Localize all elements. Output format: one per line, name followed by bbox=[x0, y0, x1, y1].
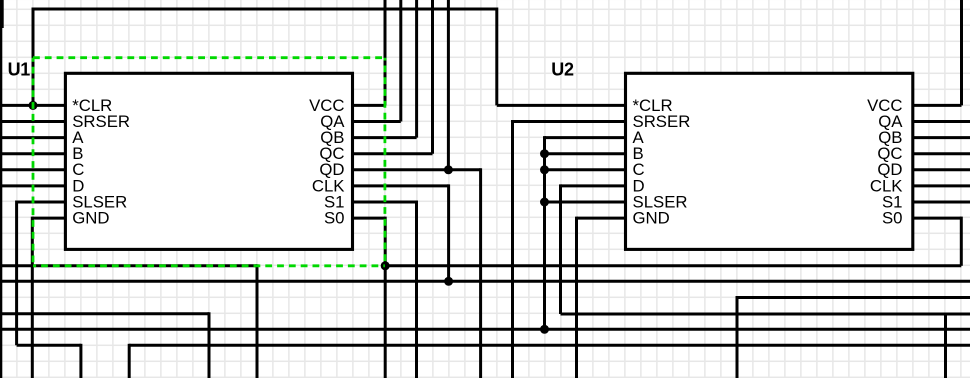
wire QD U1 drop x480.6 bbox=[479, 168, 482, 378]
wire QA U1 horizontal bbox=[353, 120, 401, 123]
wire SRSER U1 bbox=[0, 120, 65, 123]
wire QB U1 horizontal bbox=[353, 136, 417, 139]
wire D U2 horizontal bbox=[561, 184, 628, 187]
wire S1 U2 bbox=[913, 201, 970, 204]
wire QD U1 vertical to top bbox=[447, 0, 450, 170]
wire VCC U1 horizontal bbox=[353, 104, 386, 107]
wire net CLR U1 horizontal bbox=[0, 104, 65, 107]
wire CLK U1 vertical bbox=[447, 184, 450, 281]
wire CLK U2 bbox=[913, 184, 970, 187]
wire S0 U2 vertical bbox=[960, 217, 963, 266]
wire net CLR U2 horizontal bbox=[497, 104, 627, 107]
wire VCC U2 horizontal bbox=[913, 104, 962, 107]
wire D U2 drop x945.8 bbox=[944, 313, 947, 378]
wire bus y297 drop x737 bbox=[736, 296, 739, 378]
pin labels U1 left bbox=[72, 96, 130, 228]
wire bus y329 bbox=[0, 328, 970, 331]
wire bus y266 right segment bbox=[385, 264, 961, 267]
IC U2 74194 shift register bbox=[626, 73, 913, 249]
wire S0 U1 horizontal bbox=[353, 217, 386, 220]
wire bus y266 drop x257 bbox=[256, 264, 259, 378]
wire net CLR top horizontal y9 bbox=[32, 8, 497, 11]
junction node B U2 bbox=[540, 149, 549, 158]
pin labels U2 left bbox=[633, 96, 691, 228]
wire B U1 bbox=[0, 152, 65, 155]
selection box around U1 bbox=[33, 58, 385, 266]
junction node C U2 bbox=[540, 165, 549, 174]
svg-text:GND: GND bbox=[72, 209, 109, 228]
wire S1 U1 horizontal bbox=[353, 201, 417, 204]
svg-text:U2: U2 bbox=[551, 60, 574, 80]
wire GND U2 vertical bbox=[575, 217, 578, 378]
wire QC U1 vertical bbox=[431, 0, 434, 154]
junction node A bus y329 bbox=[540, 325, 549, 334]
wire left edge vertical full bbox=[0, 0, 2, 378]
svg-text:U1: U1 bbox=[8, 60, 31, 80]
wire bus y297 right segment bbox=[737, 296, 970, 299]
wire QB U1 vertical bbox=[415, 0, 418, 138]
wire A U2 horizontal bbox=[545, 136, 628, 139]
wire VCC U2 vertical bbox=[960, 0, 963, 105]
wire GND U1 horizontal bbox=[32, 217, 65, 220]
wire SLSER U1 vertical bbox=[15, 201, 18, 346]
wire QB U2 bbox=[913, 136, 970, 139]
junction node SLSER U2 bbox=[540, 198, 549, 207]
wire B U2 horizontal bbox=[545, 152, 628, 155]
svg-text:S0: S0 bbox=[324, 209, 345, 228]
wire C U2 horizontal bbox=[545, 168, 628, 171]
wire C U1 bbox=[0, 168, 65, 171]
wire VCC U1 vertical bbox=[384, 0, 387, 105]
wire GND U1 vertical bbox=[31, 217, 34, 378]
wire D U1 bbox=[0, 184, 65, 187]
wire CLK U1 horizontal bbox=[353, 184, 449, 187]
wire QC U1 horizontal bbox=[353, 152, 433, 155]
wire bus y345 drop x129.2 bbox=[128, 344, 131, 378]
IC U1 74194 shift register bbox=[65, 73, 352, 249]
wire SRSER U2 horizontal bbox=[513, 120, 628, 123]
wire QA U2 bbox=[913, 120, 970, 123]
svg-text:GND: GND bbox=[633, 209, 670, 228]
wire net CLR vertical x33 bbox=[32, 9, 35, 105]
wire bus y345 bbox=[129, 344, 970, 347]
wire top-left stub bbox=[1, 0, 4, 28]
wire bus y281 CLK bbox=[0, 280, 970, 283]
wire QD U1 horizontal bbox=[353, 168, 481, 171]
wire A U1 bbox=[0, 136, 65, 139]
pin labels U1 right bbox=[309, 96, 345, 228]
wire SRSER U2 vertical bbox=[511, 120, 514, 378]
wire GND U2 horizontal bbox=[577, 217, 628, 220]
wire QA U1 vertical bbox=[399, 0, 402, 122]
wire SLSER U1 bus segment y345 bbox=[17, 344, 81, 347]
wire S0 U2 horizontal bbox=[913, 217, 962, 220]
wire SLSER U2 horizontal bbox=[545, 201, 628, 204]
junction node at QD U1 bbox=[444, 165, 453, 174]
wire SLSER U1 horizontal bbox=[17, 201, 65, 204]
svg-text:S0: S0 bbox=[882, 209, 903, 228]
wire bus y266 left segment bbox=[0, 264, 257, 267]
wire S1 U1 vertical bbox=[415, 201, 418, 378]
pin labels U2 right bbox=[867, 96, 903, 228]
wire bus y313 left segment bbox=[0, 312, 209, 315]
wire QD U2 bbox=[913, 168, 970, 171]
wire D U2 vertical bbox=[559, 184, 562, 314]
junction node CLK bus bbox=[444, 277, 453, 286]
wire QC U2 bbox=[913, 152, 970, 155]
junction node at CLR U1 bbox=[29, 101, 38, 110]
wire net CLR vertical x495 bbox=[495, 8, 498, 106]
wire D U2 bus y313 right bbox=[561, 313, 970, 316]
wire ABC SLSER U2 vertical bbox=[543, 136, 546, 329]
wire S0 U1 vertical bbox=[384, 217, 387, 378]
wire bus y313 drop x208.5 bbox=[208, 312, 211, 378]
wire SLSER U1 drop x78.7 bbox=[79, 344, 82, 378]
junction node S0 bus bbox=[381, 261, 390, 270]
